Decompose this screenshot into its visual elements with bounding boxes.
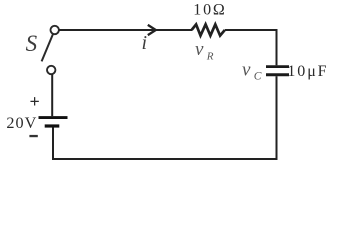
switch S bottom terminal circle	[47, 66, 55, 74]
svg-text:S: S	[26, 31, 38, 56]
svg-text:v: v	[195, 39, 204, 60]
wire top horizontal	[59, 29, 192, 31]
battery positive plate (long)	[39, 116, 68, 119]
capacitor C top plate	[266, 65, 289, 68]
svg-text:C: C	[254, 71, 262, 83]
label minus	[29, 135, 37, 137]
current arrow i	[148, 25, 156, 35]
svg-text:20V: 20V	[6, 114, 37, 132]
svg-text:R: R	[206, 51, 214, 63]
svg-text:i: i	[142, 32, 148, 54]
wire top right	[225, 29, 278, 31]
svg-text:+: +	[30, 91, 40, 111]
wire left vertical lower	[52, 128, 54, 161]
switch S top terminal circle	[51, 26, 59, 34]
svg-text:10μF: 10μF	[287, 63, 328, 80]
svg-text:v: v	[242, 60, 251, 81]
wire bottom horizontal	[52, 158, 278, 160]
svg-text:10Ω: 10Ω	[193, 2, 226, 19]
capacitor C bottom plate	[266, 73, 289, 76]
wire right vertical lower	[276, 76, 278, 160]
resistor R 10ohm zigzag	[192, 24, 225, 35]
battery negative plate (short)	[45, 124, 60, 127]
wire left vertical upper	[51, 74, 53, 116]
switch S blade	[42, 34, 53, 61]
wire right vertical upper	[276, 29, 278, 65]
